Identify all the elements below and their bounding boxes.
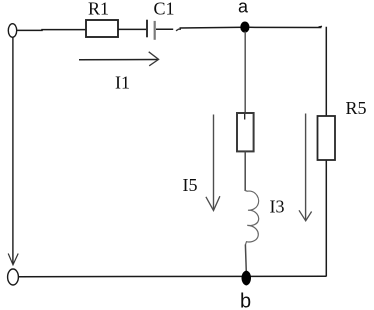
wire: coil to node b [244, 245, 247, 273]
svg-text:R1: R1 [88, 0, 109, 19]
wire: node a down to middle resistor [244, 32, 246, 114]
resistor middle (unlabeled) [237, 113, 254, 151]
tick mark (small arrow end) [176, 29, 181, 31]
arrow right branch (down) [299, 114, 312, 221]
wire stub inside middle resistor [244, 114, 246, 120]
capacitor C1 plate 2 [154, 21, 156, 40]
wire: left vertical with arrow [8, 38, 18, 265]
svg-text:a: a [238, 0, 249, 17]
corner jog [319, 25, 323, 28]
svg-text:I5: I5 [183, 175, 198, 195]
wire: C1 right stub [156, 28, 173, 30]
wire: node a to top-right corner [249, 26, 322, 28]
wire bottom [19, 275, 327, 277]
node a [240, 22, 249, 33]
resistor R1 [86, 20, 118, 37]
arrow I5 (down, middle) [206, 115, 220, 211]
wire: right vertical [325, 27, 327, 277]
wire: middle resistor to coil [244, 152, 246, 192]
svg-text:b: b [240, 291, 251, 310]
svg-text:C1: C1 [154, 0, 175, 19]
terminal top-left [8, 24, 16, 38]
svg-text:I3: I3 [270, 197, 285, 217]
node b [242, 271, 252, 286]
inductor I3 coil [245, 191, 258, 245]
wire: R1 to C1 [118, 28, 146, 30]
resistor R5 [318, 116, 336, 160]
capacitor C1 plate 1 [146, 20, 148, 38]
wire: tick to node a [180, 26, 246, 29]
svg-text:I1: I1 [115, 73, 130, 93]
svg-text:R5: R5 [346, 98, 367, 118]
wire top: terminal to R1 [17, 29, 86, 32]
arrow I1 (right) [79, 52, 159, 66]
terminal bottom-left [8, 269, 19, 285]
